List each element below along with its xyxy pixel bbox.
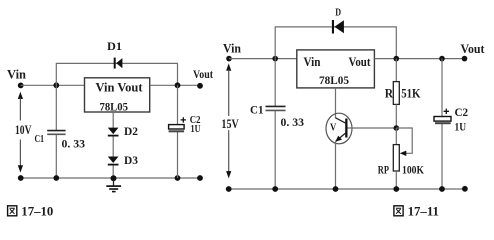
label 15V xyxy=(221,117,238,131)
label D2 xyxy=(124,124,138,138)
label + polarity (right C2) xyxy=(444,109,449,114)
wire RP bottom to rail xyxy=(395,171,397,189)
wire bottom rail (left circuit) xyxy=(21,177,200,179)
node base junction dot xyxy=(394,125,400,131)
wire between D2 and D3 xyxy=(112,137,114,158)
caption 图 glyph (right) xyxy=(394,206,403,216)
node C2 bottom junction (left) xyxy=(175,175,181,181)
caption text 17-11 xyxy=(408,204,439,219)
label 1U (right) xyxy=(455,122,467,134)
label R xyxy=(385,86,394,100)
label Vout (left circuit output) xyxy=(193,67,213,81)
wire RP top lead xyxy=(395,128,397,145)
label pin Vout (right box) xyxy=(349,55,372,69)
label C2 (left) xyxy=(190,114,201,126)
svg-text:Vin Vout: Vin Vout xyxy=(96,80,144,94)
svg-text:17–10: 17–10 xyxy=(21,204,53,219)
caption text 17-10 xyxy=(21,204,53,219)
svg-text:Vout: Vout xyxy=(193,67,213,81)
wire diode bypass riser and top span (right) xyxy=(275,27,396,59)
svg-text:D2: D2 xyxy=(124,124,138,138)
svg-text:RP: RP xyxy=(378,165,389,177)
svg-text:Vout: Vout xyxy=(461,42,486,56)
svg-text:R: R xyxy=(385,86,394,100)
svg-text:D: D xyxy=(335,7,341,19)
svg-text:0. 33: 0. 33 xyxy=(281,115,305,129)
label pins Vin Vout (left box) xyxy=(96,80,144,94)
label V (transistor) xyxy=(330,122,337,133)
svg-text:D3: D3 xyxy=(124,153,138,167)
svg-text:V: V xyxy=(330,122,337,133)
label D xyxy=(335,7,341,19)
diode D (right) xyxy=(332,20,344,34)
node C1 bottom junction (left) xyxy=(53,175,59,181)
resistor R xyxy=(393,82,399,105)
node bottom-right terminal (right) xyxy=(462,186,468,192)
label 78L05 (left box) xyxy=(100,99,129,113)
node input junction with dot (left) xyxy=(53,82,59,88)
diode D2 xyxy=(108,128,119,137)
node C2 bottom junction (right) xyxy=(439,186,445,192)
node Vout terminal (right) xyxy=(462,56,468,62)
svg-text:100K: 100K xyxy=(402,165,424,177)
svg-text:Vin: Vin xyxy=(304,55,321,69)
node ground junction (left) xyxy=(111,175,117,181)
label 0.33 (left) xyxy=(62,136,86,150)
wire 78L05 gnd pin to transistor collector xyxy=(335,88,337,118)
label Vin (left circuit input) xyxy=(7,67,26,81)
label 100K xyxy=(402,165,424,177)
wire D3 to bottom rail xyxy=(112,166,114,179)
label D3 xyxy=(124,153,138,167)
node RP bottom junction xyxy=(393,186,399,192)
op-amp U2 regulator box 78L05 (right) xyxy=(297,50,375,88)
op-amp U1 regulator box 78L05 (left) xyxy=(85,78,150,112)
wire input rail left circuit xyxy=(21,84,85,86)
svg-text:C1: C1 xyxy=(250,104,264,116)
ground symbol xyxy=(106,180,121,192)
caption 图 glyph (left) xyxy=(8,206,17,216)
node Vin terminal (left circuit) xyxy=(18,83,24,89)
svg-text:78L05: 78L05 xyxy=(319,73,349,87)
node Vout terminal (left) xyxy=(197,83,203,89)
capacitor C2 electrolytic (right) xyxy=(434,117,451,124)
capacitor C1 (left) xyxy=(47,131,65,135)
svg-text:10V: 10V xyxy=(15,123,32,137)
svg-text:51K: 51K xyxy=(401,86,421,100)
svg-text:C2: C2 xyxy=(455,107,469,119)
wire R bottom to base junction xyxy=(395,104,397,128)
label 1U (left) xyxy=(191,123,201,135)
node C1 bottom junction (right) xyxy=(272,186,278,192)
label C1 (left) xyxy=(35,134,45,145)
label D1 xyxy=(107,39,122,53)
svg-text:C1: C1 xyxy=(35,134,45,145)
svg-text:1U: 1U xyxy=(191,123,201,135)
wire output rail right circuit xyxy=(374,58,464,60)
node R top junction dot xyxy=(394,56,400,62)
svg-text:15V: 15V xyxy=(221,117,238,131)
wire input rail right circuit xyxy=(229,58,297,60)
label 78L05 (right box) xyxy=(319,73,349,87)
node C2 top junction dot (right) xyxy=(439,56,445,62)
label C2 (right) xyxy=(455,107,469,119)
label Vout (right circuit output) xyxy=(461,42,486,56)
capacitor C2 electrolytic (left) xyxy=(169,125,185,132)
node bottom-left terminal (left) xyxy=(18,175,24,181)
label 10V xyxy=(15,123,32,137)
diode D1 xyxy=(114,58,123,69)
diode D3 xyxy=(108,157,119,166)
label C1 (right) xyxy=(250,104,264,116)
svg-text:Vout: Vout xyxy=(349,55,372,69)
wiper arrowhead of RP xyxy=(400,151,407,156)
node bottom-right terminal (left) xyxy=(197,175,203,181)
wire ground pin of 78L05 to diode chain xyxy=(112,112,114,128)
wire C1 branch (left) xyxy=(55,85,57,178)
capacitor C1 (right) xyxy=(266,106,286,110)
label + polarity (left C2) xyxy=(181,117,186,122)
svg-text:D1: D1 xyxy=(107,39,122,53)
label Vin (right circuit input) xyxy=(223,41,241,55)
wire C2 branch (left) xyxy=(177,85,179,178)
label RP xyxy=(378,165,389,177)
wire D1 bypass riser and top span xyxy=(56,63,177,85)
svg-text:0. 33: 0. 33 xyxy=(62,136,86,150)
node input junction dot (right) xyxy=(272,56,278,62)
label 51K xyxy=(401,86,421,100)
wire output rail left circuit xyxy=(150,84,200,86)
wire R branch top xyxy=(395,59,397,82)
label pin Vin (right box) xyxy=(304,55,321,69)
potentiometer RP xyxy=(393,145,399,171)
transistor V (in circle) xyxy=(326,113,352,144)
svg-text:Vin: Vin xyxy=(7,67,26,81)
node emitter bottom junction xyxy=(333,186,339,192)
source arrow 15V input indication xyxy=(226,63,231,178)
label 0.33 (right) xyxy=(281,115,305,129)
wire C1 branch (right) xyxy=(274,59,276,189)
node bottom-left terminal (right) xyxy=(226,186,232,192)
wire C2 branch (right) xyxy=(441,59,443,189)
node output junction dot (left) xyxy=(175,82,181,88)
wire emitter to bottom rail xyxy=(335,142,337,190)
node Vin terminal (right circuit) xyxy=(226,56,232,62)
wire wiper connection xyxy=(396,128,412,153)
wire bottom rail (right circuit) xyxy=(229,188,465,190)
wire base lead xyxy=(348,127,397,129)
svg-text:17–11: 17–11 xyxy=(408,204,439,219)
svg-text:78L05: 78L05 xyxy=(100,99,129,113)
svg-text:1U: 1U xyxy=(455,122,467,134)
source arrow 10V input indication xyxy=(18,92,23,173)
svg-text:Vin: Vin xyxy=(223,41,241,55)
